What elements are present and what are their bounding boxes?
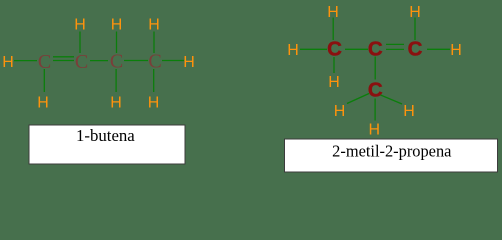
svg-text:2-metil-2-propena: 2-metil-2-propena xyxy=(332,141,452,160)
bond Ca-H down xyxy=(333,57,335,73)
svg-text:H: H xyxy=(148,95,160,112)
label box 1-butena xyxy=(29,125,185,164)
bond H-Ca xyxy=(300,48,327,50)
bond C3-H down xyxy=(115,69,117,92)
svg-text:H: H xyxy=(328,74,340,91)
bond Ca-H up xyxy=(332,18,334,41)
svg-text:H: H xyxy=(37,95,49,112)
double bond C1=C2 upper line xyxy=(53,56,74,58)
svg-text:H: H xyxy=(110,95,122,112)
svg-text:H: H xyxy=(287,42,299,59)
svg-text:H: H xyxy=(111,17,123,34)
bond Cd-H lower-left xyxy=(347,94,369,104)
bond C2-C3 xyxy=(90,60,108,62)
svg-text:H: H xyxy=(183,54,195,71)
bond C3-H up xyxy=(116,32,118,54)
bond C4-H up xyxy=(153,32,155,54)
double bond Cb=Cc upper line xyxy=(386,43,404,45)
double bond C1=C2 lower line xyxy=(53,60,74,62)
double bond Cb=Cc lower line xyxy=(386,48,404,50)
svg-text:C: C xyxy=(368,79,383,102)
bond C2-H up xyxy=(79,32,81,54)
svg-text:H: H xyxy=(334,103,346,120)
bond C1-H down xyxy=(43,69,45,92)
bond Cd-H down xyxy=(374,99,376,121)
svg-text:H: H xyxy=(2,54,14,71)
bond C4-H down xyxy=(153,69,155,92)
svg-text:C: C xyxy=(148,50,161,72)
svg-text:1-butena: 1-butena xyxy=(76,126,135,145)
svg-text:C: C xyxy=(75,51,88,73)
svg-text:H: H xyxy=(74,17,86,34)
bond H-C1 xyxy=(14,60,37,62)
bond C4-H right xyxy=(162,60,184,62)
bond Cd-H lower-right xyxy=(381,95,403,104)
svg-text:H: H xyxy=(148,17,160,34)
svg-text:H: H xyxy=(403,103,415,120)
bond C3-C4 xyxy=(124,60,148,62)
label box 2-metil-2-propena xyxy=(285,139,498,172)
svg-text:C: C xyxy=(408,38,423,61)
svg-text:H: H xyxy=(369,121,381,138)
bond Cc-H right xyxy=(427,48,450,50)
bond Cc-H up xyxy=(414,18,416,41)
svg-text:H: H xyxy=(450,42,462,59)
bond Ca-Cb xyxy=(345,48,368,50)
bond Cb-Cd down xyxy=(374,57,376,80)
